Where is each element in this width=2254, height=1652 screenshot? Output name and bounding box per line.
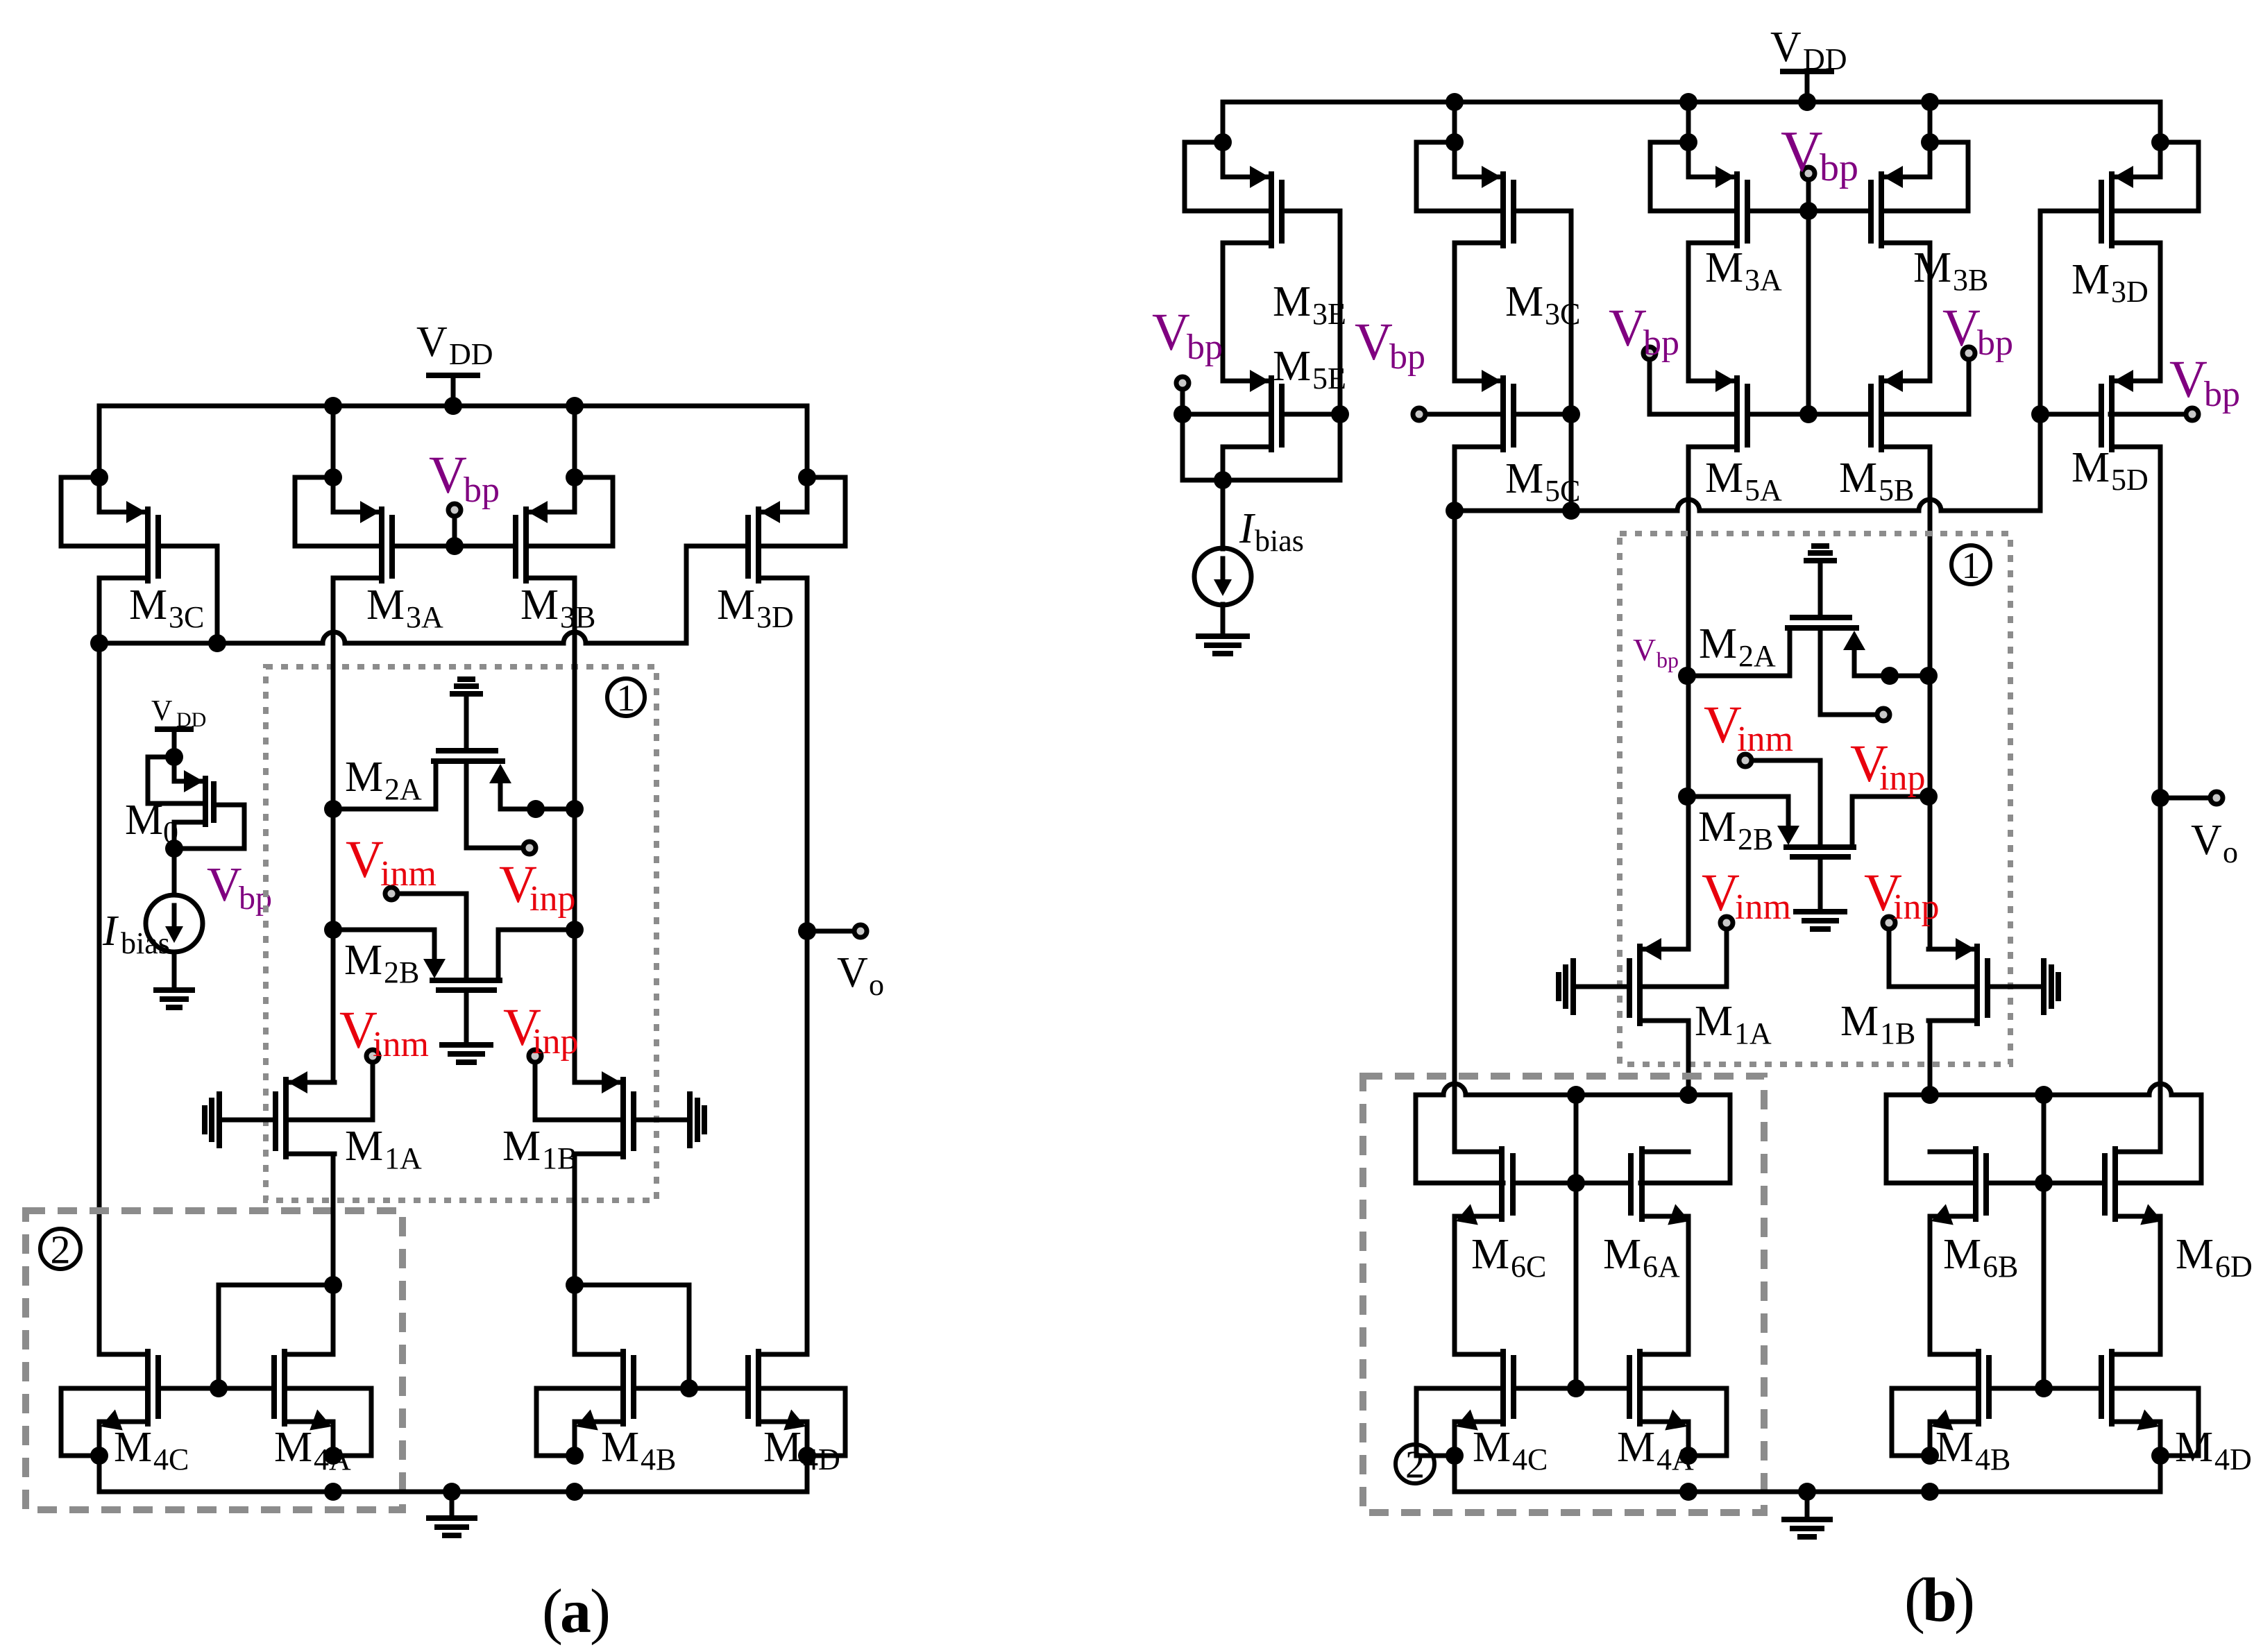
- wire M5A gate lead: [1747, 412, 1808, 417]
- wire ground rail (a): [97, 1456, 102, 1492]
- current source I_bias (b): [1194, 548, 1251, 605]
- transistor M5E: [1223, 379, 1269, 384]
- svg-text:M: M: [1695, 998, 1733, 1045]
- svg-text:inp: inp: [529, 879, 575, 919]
- wire M4B gate lead: [634, 1386, 689, 1391]
- port V_inm (M2B): [1739, 754, 1752, 767]
- junction dots on VDD rail (a): [324, 397, 342, 415]
- svg-text:I: I: [102, 908, 119, 955]
- port V_bp (M5A): [1643, 347, 1656, 359]
- wire M6C bulk bracket: [1416, 1095, 1503, 1183]
- junction dot M4 gate node (b right): [2035, 1379, 2053, 1397]
- wire M2A gate to Vinp port: [1820, 631, 1874, 715]
- svg-text:3E: 3E: [1312, 297, 1346, 331]
- svg-text:M: M: [1617, 1424, 1655, 1471]
- svg-text:V: V: [1781, 119, 1823, 184]
- svg-text:1: 1: [617, 677, 636, 719]
- transistor M3C (b): [1455, 175, 1500, 180]
- svg-text:bp: bp: [1820, 146, 1858, 189]
- port V_bp (center b): [1802, 167, 1815, 180]
- wire M6C gate lead: [1513, 1181, 1576, 1186]
- junction dot M5C gate node: [1562, 405, 1580, 423]
- svg-text:bp: bp: [1643, 323, 1679, 363]
- svg-text:M: M: [366, 581, 405, 629]
- ground (M1B gate, sideways): [687, 1094, 693, 1146]
- svg-text:6A: 6A: [1643, 1250, 1680, 1284]
- wire M6D bulk bracket: [2117, 1095, 2201, 1183]
- svg-text:M: M: [1913, 244, 1951, 291]
- transistor M6C: [1455, 1150, 1502, 1155]
- svg-text:V: V: [1609, 299, 1647, 357]
- dashed box 1 (b): [1620, 534, 2010, 1064]
- wire M3B source vertical: [573, 406, 577, 512]
- junction dot M4 gate node (b left): [1567, 1379, 1585, 1397]
- svg-text:M: M: [2071, 256, 2110, 303]
- svg-text:V: V: [207, 858, 242, 912]
- wire M1B bulk from Vinp port: [1889, 930, 1974, 987]
- port V_inp (M1B): [529, 1050, 541, 1062]
- svg-text:o: o: [869, 968, 884, 1002]
- port V_bp (M5C): [1413, 408, 1425, 420]
- wire M3A(b) gate lead: [1747, 209, 1808, 214]
- svg-text:inm: inm: [380, 854, 437, 894]
- power VDD symbol (a): [429, 373, 477, 378]
- wire M3A(b) source vertical: [1686, 102, 1691, 177]
- node M3C drain line y=927: [99, 641, 323, 646]
- wire M5D drain / Vo vertical: [2158, 447, 2163, 1152]
- wire M3E drain to M5E: [1221, 243, 1226, 381]
- svg-text:5A: 5A: [1745, 473, 1782, 507]
- svg-text:bp: bp: [1389, 337, 1425, 377]
- transistor M4C (b): [1455, 1352, 1503, 1357]
- wire M5D bulk lead: [2110, 412, 2183, 417]
- port V_inp (M2A): [1877, 708, 1890, 721]
- svg-text:3B: 3B: [560, 600, 595, 634]
- svg-text:M: M: [129, 581, 167, 629]
- transistor M1B: [575, 1080, 620, 1085]
- transistor M2B gate ground: [1818, 857, 1823, 912]
- svg-text:M: M: [1698, 803, 1736, 851]
- svg-text:M: M: [1473, 1424, 1511, 1471]
- ground (below I_bias a): [156, 987, 192, 993]
- svg-text:M: M: [763, 1424, 802, 1471]
- transistor M4B (b): [1930, 1352, 1978, 1357]
- wire hop over M3B drain: [563, 632, 586, 643]
- svg-text:3C: 3C: [169, 600, 204, 634]
- transistor M3D (b): [2115, 175, 2160, 180]
- wire M6/M4 gate bus (right): [2042, 1095, 2047, 1388]
- wire Vbp vertical (center b): [1806, 211, 1811, 414]
- svg-text:a: a: [560, 1577, 591, 1646]
- transistor M3D: [761, 510, 807, 515]
- wire M4D gate lead: [689, 1386, 748, 1391]
- junction dot I_bias node: [1214, 471, 1232, 489]
- svg-text:V: V: [1152, 303, 1190, 361]
- port V_inm (M1A): [366, 1050, 379, 1062]
- svg-text:1A: 1A: [384, 1141, 422, 1175]
- svg-text:): ): [1954, 1566, 1975, 1635]
- wire hop over Vo line: [2149, 1084, 2171, 1095]
- svg-text:2B: 2B: [384, 955, 419, 989]
- svg-text:4C: 4C: [153, 1442, 189, 1476]
- svg-text:M: M: [1273, 278, 1311, 325]
- svg-text:4B: 4B: [641, 1442, 676, 1476]
- svg-text:V: V: [2169, 350, 2208, 409]
- transistor M2A bulk stack: [452, 691, 480, 697]
- junction dots M3C drain node: [90, 634, 108, 652]
- svg-text:4A: 4A: [314, 1442, 351, 1476]
- svg-text:2A: 2A: [1738, 639, 1776, 673]
- power VDD symbol (M0): [158, 726, 191, 732]
- wire M3C(b) drain to M5C: [1452, 243, 1457, 381]
- transistor M4D: [759, 1352, 807, 1357]
- wire M5E bulk lead: [1183, 412, 1271, 417]
- svg-text:M: M: [2176, 1231, 2214, 1278]
- ground (main, a): [450, 1492, 455, 1518]
- svg-text:inm: inm: [373, 1025, 429, 1064]
- svg-text:M: M: [114, 1424, 152, 1471]
- svg-text:DD: DD: [1803, 42, 1847, 76]
- svg-text:V: V: [1704, 696, 1742, 754]
- svg-text:3D: 3D: [756, 600, 794, 634]
- svg-text:1B: 1B: [1880, 1016, 1915, 1050]
- svg-text:M: M: [1840, 998, 1879, 1045]
- wire M3D(b) drain to M5D: [2158, 243, 2163, 381]
- transistor M6A: [1642, 1150, 1688, 1155]
- wire hop over M3A drain: [323, 632, 345, 643]
- wire M3D drain vertical / Vo line: [805, 578, 810, 1354]
- wire M4B(b) gate lead: [1989, 1386, 2044, 1391]
- transistor M2A bulk stack: [1806, 558, 1834, 563]
- transistor M2B gate ground: [464, 990, 469, 1045]
- wire M3A(b) drain to M5A: [1686, 243, 1691, 381]
- badge 1 (b): [1951, 545, 1990, 584]
- junction dot M4A diode tap: [324, 1276, 342, 1294]
- port V_bp (M5B): [1963, 347, 1975, 359]
- svg-text:bp: bp: [1656, 647, 1679, 672]
- wire M4C gate lead: [158, 1386, 219, 1391]
- wire hop bus over M5B drain: [1919, 500, 1941, 511]
- svg-text:inp: inp: [532, 1022, 578, 1062]
- transistor M5B: [1884, 379, 1930, 384]
- wire M3E source vertical: [1221, 102, 1226, 177]
- wire M1A drain vertical: [331, 1154, 336, 1354]
- transistor M4D (b): [2112, 1352, 2160, 1357]
- svg-text:inp: inp: [1879, 758, 1925, 798]
- wire M3A source vertical: [331, 406, 336, 512]
- junction dots on VDD rail (b): [1446, 93, 1464, 111]
- svg-text:V: V: [2191, 817, 2222, 864]
- svg-text:M: M: [1505, 455, 1543, 502]
- ground (M1A gate, sideways): [1570, 961, 1576, 1012]
- port V_o (a): [854, 925, 867, 937]
- wire M3B drain vertical: [573, 578, 577, 1082]
- transistor M1A: [1643, 947, 1688, 952]
- junction dot M6 gate node (left): [1567, 1174, 1585, 1192]
- wire M3B(b) source vertical: [1928, 102, 1933, 177]
- junction dot M5A/M5B gate node: [1799, 405, 1817, 423]
- port V_bp (M5E): [1176, 377, 1189, 389]
- junction dots M2B: [324, 921, 342, 939]
- wire M1A gate lead: [219, 1118, 276, 1123]
- wire M4B/M4D gate diode tie: [575, 1285, 689, 1388]
- transistor M1B: [1929, 947, 1974, 952]
- wire M1A bulk from Vinm port: [289, 1064, 373, 1120]
- wire hop over M6C feed: [1443, 1084, 1466, 1095]
- port V_bp (M5D): [2186, 408, 2198, 420]
- wire M1A bulk from Vinm port: [1643, 930, 1727, 987]
- svg-text:6D: 6D: [2215, 1250, 2253, 1284]
- wire M3C source/drain vertical x=143: [97, 406, 102, 512]
- wire M4C(b) gate lead: [1514, 1386, 1576, 1391]
- junction dots on ground rail (a): [324, 1483, 342, 1501]
- svg-text:V: V: [429, 446, 467, 504]
- wire M3D(b) gate tie: [2040, 211, 2101, 511]
- svg-text:M: M: [125, 797, 163, 844]
- port V_inp (M2A): [523, 842, 536, 854]
- wire M5C bulk lead: [1428, 412, 1503, 417]
- transistor M3B: [529, 510, 575, 515]
- svg-text:M: M: [1603, 1231, 1641, 1278]
- wire M5A bulk lead: [1650, 412, 1737, 417]
- svg-text:M: M: [1705, 454, 1743, 502]
- svg-text:6B: 6B: [1983, 1250, 2018, 1284]
- svg-text:5B: 5B: [1879, 473, 1914, 507]
- wire M1B gate lead: [1988, 985, 2044, 989]
- junction dot M4B/M4D gate node: [680, 1379, 698, 1397]
- wire M1B bulk from Vinp port: [535, 1064, 620, 1120]
- svg-text:V: V: [416, 318, 448, 366]
- wire M6B bulk bracket: [1886, 1095, 1974, 1183]
- svg-text:M: M: [345, 1123, 383, 1170]
- wire M5D gate lead: [2040, 412, 2101, 417]
- wire M1B drain vertical: [573, 1154, 577, 1354]
- wire M3C gate tie: [158, 546, 217, 643]
- svg-text:M: M: [1705, 244, 1743, 291]
- svg-text:DD: DD: [176, 708, 206, 731]
- junction dots M6B drain line: [1921, 1086, 1939, 1104]
- wire to current source (b): [1221, 480, 1226, 549]
- ground (below I_bias b): [1198, 633, 1247, 639]
- wire M3C(b) source vertical: [1452, 102, 1457, 177]
- wire I_bias to ground (b): [1221, 604, 1226, 636]
- svg-text:5D: 5D: [2111, 463, 2149, 497]
- transistor M2A: [1793, 615, 1849, 620]
- svg-text:DD: DD: [449, 337, 493, 371]
- transistor M1A: [289, 1080, 334, 1085]
- wire M6B gate lead: [1986, 1181, 2044, 1186]
- wire M3A drain vertical: [331, 578, 336, 1082]
- wire M5C drain: [1452, 447, 1457, 511]
- transistor M3A (b): [1688, 175, 1734, 180]
- ground (main, b): [1805, 1492, 1810, 1519]
- transistor M4B: [575, 1352, 623, 1357]
- junction dot M0 source: [165, 748, 183, 766]
- wire M5C gate lead: [1514, 412, 1571, 417]
- svg-text:M: M: [502, 1123, 541, 1170]
- transistor M0: [172, 757, 177, 781]
- transistor M5C: [1455, 379, 1500, 384]
- svg-text:2: 2: [51, 1227, 71, 1272]
- ground (M1A gate, sideways): [217, 1094, 222, 1146]
- transistor M3C: [99, 510, 145, 515]
- svg-text:V: V: [1355, 313, 1393, 371]
- wire M4D(b) gate lead: [2044, 1386, 2101, 1391]
- wire M4A/M4C gate diode tie: [219, 1285, 333, 1388]
- transistor M5A: [1688, 379, 1734, 384]
- svg-text:V: V: [346, 831, 384, 889]
- wire M3C(b) gate tie: [1514, 211, 1571, 511]
- node folded bus (b): [1455, 509, 1677, 513]
- wire M5E drain: [1221, 447, 1226, 480]
- junction dot M5D gate node: [2031, 405, 2049, 423]
- wire VDD rail (a): [99, 404, 807, 409]
- wire M3D(b) source vertical: [2158, 102, 2163, 177]
- wire M1B(b) drain vertical: [1928, 1021, 1933, 1095]
- wire M3B gate lead: [455, 544, 516, 549]
- node M6A drain line (left): [1416, 1093, 1443, 1098]
- wire M5C feed vertical: [1452, 511, 1457, 1152]
- ground (M1B gate, sideways): [2041, 961, 2047, 1012]
- dashed box 2 (a): [26, 1211, 402, 1510]
- wire VDD rail (b): [1223, 100, 2160, 105]
- svg-text:bp: bp: [2204, 375, 2240, 414]
- svg-text:inm: inm: [1735, 887, 1791, 927]
- svg-text:I: I: [1239, 505, 1256, 552]
- wire M3B(b) drain to M5B: [1928, 243, 1933, 381]
- svg-text:o: o: [2223, 835, 2238, 869]
- wire M5B gate lead: [1808, 412, 1871, 417]
- wire hop bus over M5A drain: [1677, 500, 1700, 511]
- transistor M5D: [2115, 379, 2160, 384]
- wire M6A gate lead: [1576, 1181, 1631, 1186]
- badge 2 (a): [40, 1229, 80, 1269]
- wire ground rail (b): [1452, 1456, 1457, 1492]
- svg-text:M: M: [601, 1424, 639, 1471]
- svg-text:inp: inp: [1893, 887, 1939, 927]
- svg-text:): ): [590, 1577, 611, 1646]
- badge 2 (b): [1396, 1445, 1434, 1483]
- port V_inm (M1A): [1720, 917, 1733, 929]
- svg-text:V: V: [1633, 632, 1656, 667]
- svg-text:M: M: [1471, 1231, 1509, 1278]
- svg-text:M: M: [1699, 620, 1737, 667]
- svg-text:V: V: [1942, 299, 1981, 357]
- junction dot M4 gate node: [210, 1379, 228, 1397]
- svg-text:4C: 4C: [1512, 1442, 1548, 1476]
- svg-text:V: V: [1702, 864, 1740, 922]
- junction dots M6A drain line: [1567, 1086, 1585, 1104]
- junction dot M6 gate node (right): [2035, 1174, 2053, 1192]
- wire M6D gate lead: [2044, 1181, 2105, 1186]
- svg-text:bias: bias: [121, 926, 170, 960]
- port V_inm (M2B): [385, 887, 398, 900]
- wire M5B drain vertical: [1928, 447, 1933, 949]
- node V_o tap (a): [798, 922, 816, 940]
- transistor M6D: [2115, 1150, 2160, 1155]
- svg-text:M: M: [1943, 1231, 1981, 1278]
- junction dot M4B diode tap: [566, 1276, 584, 1294]
- svg-text:M: M: [2175, 1424, 2213, 1471]
- svg-text:3D: 3D: [2111, 275, 2149, 309]
- svg-text:M: M: [1273, 343, 1311, 390]
- svg-text:M: M: [344, 937, 382, 984]
- wire M5A drain vertical: [1686, 447, 1691, 949]
- node V_o tap (b): [2151, 789, 2169, 807]
- current source I_bias (a): [146, 895, 203, 952]
- port V_o (b): [2210, 792, 2223, 804]
- node M6B drain line (right): [1886, 1093, 2149, 1098]
- wire M3E gate tie: [1282, 211, 1340, 480]
- wire M0 gate tie: [174, 805, 244, 849]
- svg-text:2A: 2A: [384, 772, 422, 806]
- wire M6/M4 gate bus (left): [1574, 1095, 1579, 1388]
- svg-text:4A: 4A: [1656, 1442, 1694, 1476]
- svg-text:bp: bp: [1977, 323, 2013, 363]
- transistor M4A (b): [1640, 1352, 1688, 1357]
- port V_inp (M1B): [1883, 917, 1895, 929]
- svg-text:3B: 3B: [1953, 263, 1988, 297]
- transistor M4C: [99, 1352, 148, 1357]
- svg-text:6C: 6C: [1511, 1250, 1546, 1284]
- transistor M4A: [285, 1352, 333, 1357]
- wire M3A gate lead: [392, 544, 455, 549]
- wire I_bias to ground (a): [172, 952, 177, 990]
- wire M6A bulk bracket: [1641, 1095, 1730, 1183]
- wire M2B gate to Vinm port: [1754, 760, 1820, 844]
- junction dots M2B: [1678, 787, 1696, 806]
- transistor M2B: [1786, 844, 1854, 850]
- svg-text:M: M: [1505, 278, 1543, 325]
- transistor M6B: [1930, 1150, 1976, 1155]
- junction dots on ground rail (b): [1679, 1483, 1697, 1501]
- svg-text:2B: 2B: [1738, 822, 1773, 856]
- svg-text:M: M: [520, 581, 559, 629]
- wire M2A gate to Vinp port: [466, 765, 520, 848]
- svg-text:inm: inm: [1737, 719, 1793, 759]
- junction dots M2A: [324, 800, 342, 818]
- svg-text:4D: 4D: [2214, 1442, 2252, 1476]
- transistor M3B (b): [1884, 175, 1930, 180]
- port V_bp (a): [448, 504, 461, 516]
- svg-text:3C: 3C: [1545, 297, 1580, 331]
- svg-text:1A: 1A: [1734, 1016, 1772, 1050]
- wire M3B(b) gate lead: [1808, 209, 1871, 214]
- svg-text:4B: 4B: [1975, 1442, 2010, 1476]
- wire M4A(b) gate lead: [1576, 1386, 1629, 1391]
- svg-text:V: V: [1770, 24, 1802, 71]
- transistor M2A: [439, 748, 495, 753]
- wire M5B bulk lead: [1881, 412, 1969, 417]
- svg-text:M: M: [274, 1424, 312, 1471]
- wire M1A gate lead: [1573, 985, 1629, 989]
- junction dots on folded bus: [1446, 502, 1464, 520]
- wire M2B gate to Vinm port: [400, 894, 466, 978]
- svg-text:b: b: [1922, 1566, 1957, 1635]
- node I_bias node line (b): [1183, 414, 1340, 480]
- dashed box 2 (b): [1363, 1076, 1764, 1513]
- svg-text:M: M: [1839, 454, 1877, 502]
- svg-text:bp: bp: [464, 470, 500, 510]
- svg-text:0: 0: [163, 815, 178, 849]
- transistor M2B: [432, 978, 500, 983]
- svg-text:M: M: [345, 753, 383, 801]
- svg-text:1: 1: [1962, 545, 1981, 586]
- wire M3D gate tie: [686, 546, 748, 643]
- svg-text:M: M: [1935, 1424, 1974, 1471]
- svg-text:V: V: [151, 695, 172, 727]
- svg-text:M: M: [2071, 444, 2110, 491]
